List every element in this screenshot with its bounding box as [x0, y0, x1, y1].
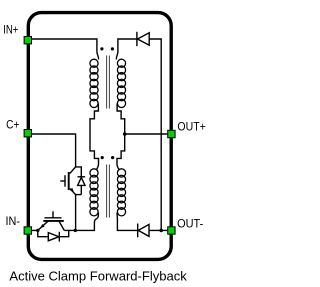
- terminal IN-: [24, 227, 31, 234]
- wire C+ to clamp: [32, 134, 76, 167]
- clamp diode D3 (cathode up): [78, 177, 86, 195]
- terminal OUT+: [168, 130, 175, 137]
- Q1 emitter arrow: [40, 224, 44, 228]
- main switch Q1 (IGBT horizontal): [38, 211, 65, 230]
- transformer T1 core top: [107, 56, 110, 109]
- secondary bottom lead and wire to diode D2: [117, 213, 138, 231]
- svg-text:IN-: IN-: [6, 214, 21, 228]
- diode D2 (flyback, cathode left): [138, 224, 149, 238]
- clamp transistor Q2 (IGBT): [60, 167, 75, 195]
- phase dot bottom secondary: [111, 156, 114, 159]
- transformer T1 secondary winding (top right coil): [117, 59, 125, 107]
- transformer T1 primary winding (bottom left coil): [90, 169, 98, 216]
- svg-text:C+: C+: [6, 118, 19, 132]
- secondary series link (right barrel): [117, 103, 125, 169]
- body diode D4 (cathode right): [48, 232, 59, 242]
- phase dot top secondary: [111, 47, 114, 50]
- junction secondary tap: [123, 132, 127, 136]
- clamp diode branch bottom: [76, 194, 82, 196]
- terminal IN+: [24, 37, 31, 44]
- svg-text:Active Clamp Forward-Flyback: Active Clamp Forward-Flyback: [9, 268, 187, 283]
- junction rail to OUT-: [159, 229, 163, 233]
- body diode D4 branch right: [59, 230, 68, 236]
- phase dot top primary: [100, 47, 103, 50]
- svg-text:OUT-: OUT-: [177, 216, 203, 230]
- svg-text:OUT+: OUT+: [177, 120, 205, 134]
- wire D2 to OUT-: [149, 229, 167, 231]
- wire D1 anode down rail to OUT- node: [149, 39, 161, 230]
- transformer T1 secondary top lead and wire to diode D1: [116, 39, 137, 60]
- phase dot bottom primary: [101, 156, 104, 159]
- terminal OUT-: [168, 227, 175, 234]
- primary series link (left barrel): [90, 103, 99, 169]
- svg-text:IN+: IN+: [3, 23, 18, 37]
- junction clamp branch: [74, 229, 77, 232]
- wire clamp to main node: [75, 195, 77, 231]
- terminal C+: [24, 130, 31, 137]
- enclosure rounded border: [28, 13, 171, 260]
- wire IN- to switch and body diode D4 branch left: [32, 230, 48, 236]
- transformer T1 core bottom: [107, 165, 110, 218]
- primary bottom lead and wire to switch: [64, 213, 98, 231]
- wire tap to OUT+: [125, 133, 168, 135]
- clamp diode branch top: [76, 167, 82, 177]
- transformer T1 secondary winding (bottom right coil): [117, 169, 125, 216]
- diode D1 (forward, cathode left): [137, 32, 149, 46]
- Q2 emitter arrow: [70, 188, 74, 192]
- wire IN+ to transformer primary top lead: [32, 39, 99, 60]
- junction diode branch left: [36, 229, 39, 232]
- transformer T1 primary winding (top left coil): [90, 59, 98, 107]
